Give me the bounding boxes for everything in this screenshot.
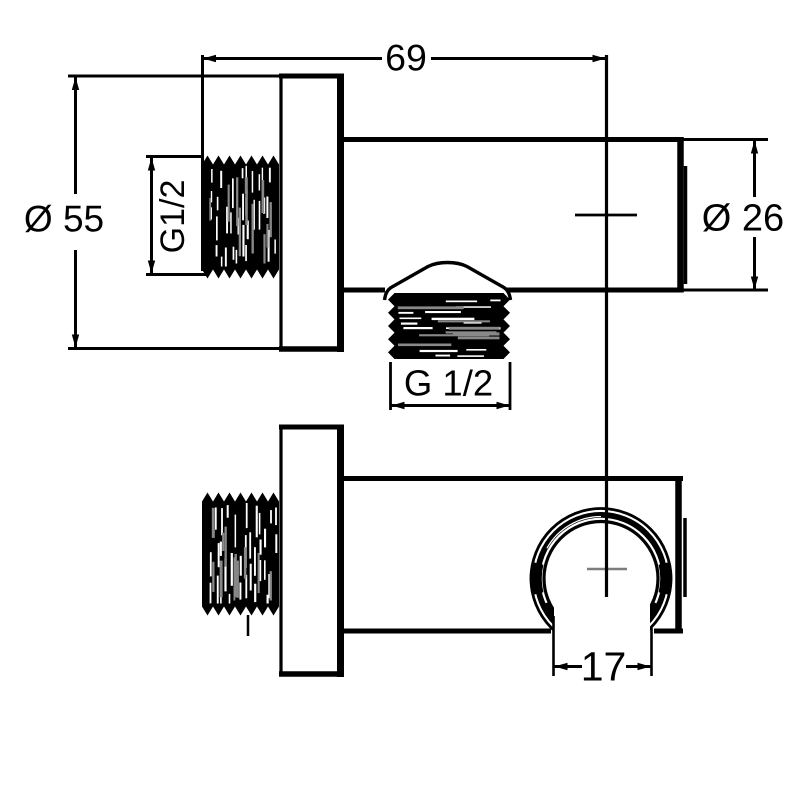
- dimension Ø26 (right): [683, 140, 784, 291]
- svg-text:G 1/2: G 1/2: [404, 363, 493, 404]
- svg-text:Ø 55: Ø 55: [24, 199, 104, 240]
- wall flange (top view): [279, 74, 344, 353]
- outlet boss dome (top view): [385, 263, 511, 301]
- svg-text:69: 69: [385, 37, 427, 79]
- svg-text:Ø 26: Ø 26: [702, 198, 784, 240]
- wall thread stub (top view): [202, 156, 279, 279]
- centerline tick (top view body): [575, 214, 637, 217]
- svg-text:17: 17: [581, 644, 627, 690]
- outlet thread (top view): [388, 293, 510, 359]
- dimension G1/2 (wall thread, rotated): [146, 157, 209, 275]
- wall thread stub (bottom view): [202, 493, 279, 616]
- dimension Ø55 (left): [24, 76, 280, 349]
- wall flange (bottom view): [279, 425, 344, 678]
- svg-text:G1/2: G1/2: [154, 180, 192, 254]
- shower holder ring (bottom view): [531, 509, 671, 654]
- dimension 17 (holder opening): [554, 616, 652, 690]
- holder centerline tick (gray): [587, 568, 627, 571]
- stray centerline below thread (bottom view): [247, 615, 250, 636]
- body cylinder (bottom view): [342, 476, 685, 634]
- body cylinder (top view): [342, 137, 686, 293]
- dimension G 1/2 (outlet): [391, 362, 511, 410]
- dimension 69 (top): [203, 37, 607, 272]
- vertical centerline through outlet/holder axis: [605, 55, 608, 597]
